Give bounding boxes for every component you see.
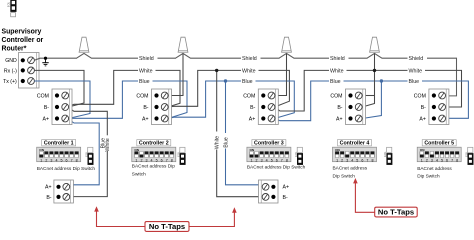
wire: tap drop to C4 A+ <box>362 81 381 119</box>
svg-text:B-: B- <box>250 105 255 111</box>
wire: COM pigtail C2 (from wire nut 2) <box>167 54 184 96</box>
EOL switch icon (supervisory, top-left) <box>10 0 16 12</box>
svg-text:2: 2 <box>426 158 428 162</box>
net label Shield seg4 <box>408 55 428 61</box>
svg-text:2: 2 <box>140 158 142 162</box>
svg-text:8: 8 <box>286 158 288 162</box>
svg-text:EOL: EOL <box>6 1 10 7</box>
svg-text:Blue: Blue <box>242 79 253 85</box>
net label White seg3 <box>329 67 347 73</box>
svg-text:1: 1 <box>135 158 137 162</box>
net label White seg4 <box>408 67 426 73</box>
wire nut 3 <box>282 37 292 52</box>
svg-text:3: 3 <box>50 158 52 162</box>
svg-text:8: 8 <box>76 158 78 162</box>
svg-text:1: 1 <box>40 158 42 162</box>
wire nut 4 <box>370 37 380 52</box>
svg-text:Router*: Router* <box>2 46 27 53</box>
wire: bus tap drop to remote block 2 B- (white) <box>217 70 262 196</box>
net label Blue seg3 <box>329 78 344 84</box>
junction dot on white bus at remote tap <box>215 69 218 72</box>
svg-text:Shield: Shield <box>330 56 345 62</box>
svg-text:No T-Taps: No T-Taps <box>378 208 414 217</box>
net label White seg2 <box>241 67 259 73</box>
wire: blue conductor seg0 (Tx to C1 A+) <box>34 81 90 119</box>
svg-text:7: 7 <box>366 158 368 162</box>
svg-text:BACnet address: BACnet address <box>417 166 452 172</box>
svg-text:2: 2 <box>256 158 258 162</box>
svg-text:B-: B- <box>421 105 426 111</box>
svg-text:Dip Switch: Dip Switch <box>333 173 356 179</box>
svg-text:2: 2 <box>341 158 343 162</box>
junction dot on blue bus at C4 tap <box>380 79 383 82</box>
svg-text:8: 8 <box>456 158 458 162</box>
svg-text:COM: COM <box>243 93 255 99</box>
svg-text:5: 5 <box>61 158 63 162</box>
net label Blue seg1 <box>138 78 153 84</box>
net label White seg1 <box>138 67 156 73</box>
svg-text:GND: GND <box>5 58 17 64</box>
terminal block C3 (COM/B-/A+) <box>258 89 278 125</box>
svg-text:COM: COM <box>330 93 342 99</box>
terminal block C5 (COM/B-/A+) <box>429 89 449 125</box>
svg-text:A+: A+ <box>249 116 256 122</box>
BACnet address DIP switch C4 <box>338 140 372 146</box>
svg-text:4: 4 <box>266 158 268 162</box>
svg-text:Controller 3: Controller 3 <box>254 141 284 147</box>
wire: blue conductor seg3 (C3 A+ to C5 A+, tapped at C4) <box>275 81 469 121</box>
svg-text:6: 6 <box>276 158 278 162</box>
wire: blue conductor seg2 (C2 A+ to C3 A+) <box>168 81 294 119</box>
svg-text:B-: B- <box>283 195 288 201</box>
svg-text:A+: A+ <box>283 185 290 191</box>
svg-text:7: 7 <box>71 158 73 162</box>
svg-text:7: 7 <box>451 158 453 162</box>
svg-text:Rx (-): Rx (-) <box>4 68 17 74</box>
svg-text:Shield: Shield <box>139 56 154 62</box>
svg-text:5: 5 <box>356 158 358 162</box>
wire: white conductor seg2 (C2 B- to C3 B-) <box>168 70 290 107</box>
wire: white conductor seg0 (Rx to C1 B-) <box>34 70 84 107</box>
wire: COM pigtail C3 (from wire nut 3) <box>273 54 286 96</box>
svg-text:Shield: Shield <box>409 56 424 62</box>
svg-text:Controller or: Controller or <box>2 37 44 44</box>
net label Shield seg1 <box>138 55 158 61</box>
net label Shield seg3 <box>329 55 349 61</box>
junction dot on blue bus at remote tap <box>224 79 227 82</box>
svg-text:3: 3 <box>261 158 263 162</box>
net label Blue seg4 <box>408 78 423 84</box>
svg-text:White: White <box>215 136 221 149</box>
remote terminal block R1 (A+/B-) <box>54 180 74 203</box>
svg-text:Dip Switch: Dip Switch <box>417 174 440 180</box>
net label Blue seg2 <box>241 78 256 84</box>
svg-text:Blue: Blue <box>224 137 230 147</box>
wire: bus tap drop to remote block 2 A+ (blue) <box>226 81 262 187</box>
svg-text:Controller 2: Controller 2 <box>139 141 169 147</box>
wire: white conductor seg1 (C1 B- to C2 B-) <box>68 70 180 107</box>
svg-text:A+: A+ <box>142 116 149 122</box>
terminal block C4 (COM/B-/A+) <box>346 89 366 125</box>
svg-text:7: 7 <box>166 158 168 162</box>
wire: shield bus (GND to COM daisy chain) <box>34 53 456 96</box>
svg-text:BACnet address Dip Switch: BACnet address Dip Switch <box>37 166 96 172</box>
svg-text:Blue: Blue <box>330 79 341 85</box>
wire nut 2 <box>178 37 188 52</box>
svg-text:Shield: Shield <box>242 56 257 62</box>
terminal block C1 (COM/B-/A+) <box>52 89 72 125</box>
BACnet address DIP switch C1 <box>42 140 76 146</box>
BACnet address DIP switch C3 <box>252 140 286 146</box>
remote terminal block R2 (A+/B-) <box>259 180 279 203</box>
svg-text:White: White <box>105 138 111 151</box>
svg-text:B-: B- <box>337 105 342 111</box>
svg-text:5: 5 <box>271 158 273 162</box>
svg-text:A+: A+ <box>45 185 52 191</box>
svg-text:BACnet address Dip Switch: BACnet address Dip Switch <box>247 165 306 171</box>
svg-text:No T-Taps: No T-Taps <box>149 222 185 231</box>
junction dot on white bus at C4 tap <box>373 69 376 72</box>
svg-text:1: 1 <box>421 158 423 162</box>
svg-text:5: 5 <box>441 158 443 162</box>
svg-text:BACnet address: BACnet address <box>333 165 368 171</box>
wire: C1 B- drop to remote block B- (white) <box>68 107 107 197</box>
svg-text:Controller 4: Controller 4 <box>340 141 370 147</box>
svg-text:COM: COM <box>136 93 148 99</box>
svg-text:White: White <box>330 68 344 74</box>
svg-text:4: 4 <box>436 158 438 162</box>
svg-text:7: 7 <box>281 158 283 162</box>
svg-text:Tx (+): Tx (+) <box>3 79 17 85</box>
BACnet address DIP switch C2 <box>137 140 171 146</box>
svg-text:COM: COM <box>414 93 426 99</box>
svg-text:6: 6 <box>66 158 68 162</box>
svg-text:3: 3 <box>431 158 433 162</box>
terminal block TB0 (supervisory: GND / Rx / Tx) <box>19 53 40 89</box>
svg-text:4: 4 <box>55 158 57 162</box>
svg-text:B-: B- <box>143 105 148 111</box>
terminal block C2 (COM/B-/A+) <box>152 89 172 125</box>
wire: COM pigtail C4 + tap drop to C4 B- <box>360 95 374 97</box>
svg-text:A+: A+ <box>419 116 426 122</box>
wire nut 1 <box>79 37 89 52</box>
junction + earth ground symbol on GND wire <box>44 57 47 60</box>
svg-text:B-: B- <box>44 105 49 111</box>
svg-text:8: 8 <box>371 158 373 162</box>
svg-text:1: 1 <box>251 158 253 162</box>
svg-text:Supervisory: Supervisory <box>2 29 42 36</box>
callout: No T-Taps (left) with arrows <box>97 211 146 227</box>
svg-text:A+: A+ <box>43 116 50 122</box>
rotated label Blue (bus tap drop) <box>224 133 227 149</box>
svg-text:Controller 1: Controller 1 <box>44 141 74 147</box>
svg-text:B-: B- <box>46 195 51 201</box>
svg-text:A+: A+ <box>336 116 343 122</box>
svg-text:BACnet address Dip: BACnet address Dip <box>132 164 175 170</box>
rotated label White (bus tap drop) <box>215 132 218 150</box>
svg-text:Blue: Blue <box>139 79 150 85</box>
svg-text:Blue: Blue <box>409 79 420 85</box>
wire: C1 A+ drop to remote block A+ (blue) <box>68 119 99 187</box>
svg-text:4: 4 <box>151 158 153 162</box>
svg-text:4: 4 <box>351 158 353 162</box>
svg-text:3: 3 <box>346 158 348 162</box>
svg-text:8: 8 <box>171 158 173 162</box>
svg-text:6: 6 <box>361 158 363 162</box>
svg-text:2: 2 <box>45 158 47 162</box>
svg-text:Switch: Switch <box>132 172 146 178</box>
BACnet address DIP switch C5 <box>422 140 456 146</box>
svg-text:3: 3 <box>146 158 148 162</box>
svg-text:Controller 5: Controller 5 <box>424 141 454 147</box>
svg-text:6: 6 <box>446 158 448 162</box>
svg-text:6: 6 <box>161 158 163 162</box>
svg-text:White: White <box>409 68 423 74</box>
wire: blue conductor seg1 (C1 A+ to C2 A+) <box>68 81 187 119</box>
svg-text:White: White <box>139 68 153 74</box>
rotated label White (C1 drop) <box>106 135 109 151</box>
svg-text:1: 1 <box>336 158 338 162</box>
svg-text:5: 5 <box>156 158 158 162</box>
net label Shield seg2 <box>241 55 261 61</box>
svg-text:COM: COM <box>37 93 49 99</box>
callout: No T-Taps (right) with arrow <box>355 183 374 213</box>
wire: white conductor seg3 (C3 B- to C5 B-, tapped at C4) <box>275 70 462 111</box>
svg-text:White: White <box>242 68 256 74</box>
